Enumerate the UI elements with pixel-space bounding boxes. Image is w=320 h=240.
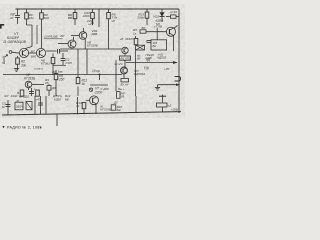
svg-text:РАДИО № 2, 1985: РАДИО № 2, 1985 [7,125,42,129]
